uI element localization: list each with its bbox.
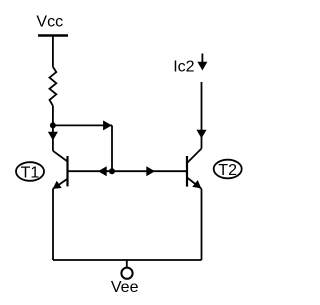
T2 label ellipse bbox=[214, 160, 242, 179]
svg-text:T1: T1 bbox=[21, 165, 40, 182]
wire down from corner to node B bbox=[111, 125, 113, 171]
wire node A to base branch (horizontal) bbox=[53, 124, 112, 126]
arrow on T2 collector wire bbox=[197, 130, 207, 139]
wire node A down to T1 collector bbox=[52, 125, 54, 150]
node B junction dot bbox=[109, 168, 115, 174]
wire Vcc bar to resistor R1 bbox=[52, 36, 54, 67]
node A junction dot bbox=[50, 122, 56, 128]
wire resistor to node A bbox=[52, 106, 54, 126]
svg-text:Ic2: Ic2 bbox=[173, 58, 194, 75]
base current arrow toward T2 bbox=[146, 166, 155, 176]
transistor T2 (base on left) bbox=[187, 149, 202, 189]
arrow on horizontal branch wire bbox=[103, 120, 112, 130]
T1 label ellipse bbox=[16, 162, 44, 181]
svg-text:Vcc: Vcc bbox=[36, 14, 63, 31]
stub to Vee terminal bbox=[126, 260, 128, 268]
base rail wire T1 to T2 bbox=[68, 170, 188, 172]
Vee terminal circle bbox=[121, 268, 132, 279]
resistor R1 bbox=[50, 67, 57, 106]
transistor T1 (mirrored, base on right) bbox=[53, 151, 68, 189]
wire T1 emitter down bbox=[52, 189, 54, 260]
Ic2 current direction arrow bbox=[197, 54, 207, 71]
Vcc supply bar bbox=[38, 34, 68, 36]
wire T2 emitter down bbox=[201, 189, 203, 260]
wire Ic2 into T2 collector bbox=[201, 82, 203, 149]
current arrow into T1 collector bbox=[48, 132, 58, 141]
svg-text:Vee: Vee bbox=[111, 279, 139, 296]
svg-text:T2: T2 bbox=[218, 162, 237, 179]
base current arrow toward T1 bbox=[98, 166, 107, 176]
bottom rail wire bbox=[53, 259, 202, 261]
